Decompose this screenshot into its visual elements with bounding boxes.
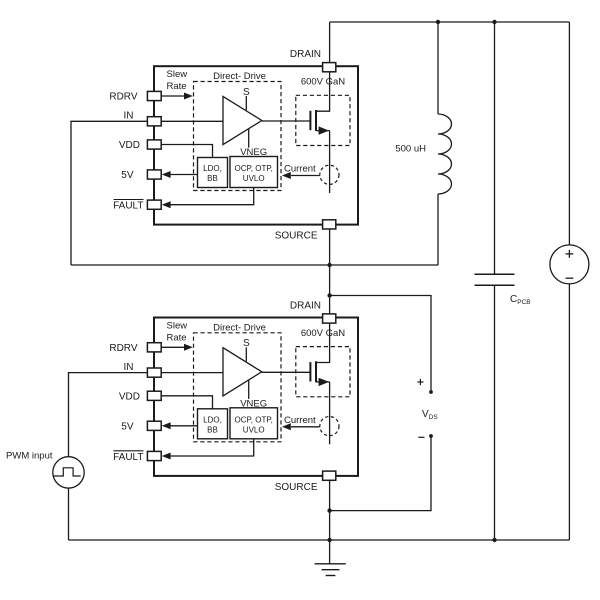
svg-text:OCP, OTP,: OCP, OTP, (235, 164, 273, 173)
node junction switch node (327, 263, 331, 267)
svg-text:BB: BB (207, 425, 218, 434)
wire PWM to U2 IN pin (69, 373, 148, 457)
transistor Q2 gate bar (309, 362, 311, 381)
wire top rail (330, 21, 570, 23)
V_DS minus sign (418, 436, 424, 438)
op-amp driver IC U1 outer box (154, 66, 358, 224)
svg-text:VDD: VDD (119, 140, 140, 151)
transistor Q1 drain lead (316, 72, 330, 111)
block LDO, BB (U2) (198, 409, 228, 439)
wire U2 SOURCE pin down to ground (329, 480, 331, 540)
wire triangle output to gate (U2) (262, 371, 311, 373)
wire OCP to FAULT pin with arrow (U2) (170, 439, 254, 456)
node VNEG stub and label (U1) (248, 129, 250, 148)
wire LDO to 5V pin with arrow (U1) (170, 174, 198, 176)
pin FAULT (U1) (147, 200, 161, 209)
block OCP, OTP, UVLO (U1) (230, 157, 278, 188)
transistor Q2 source lead with arrow (316, 381, 330, 383)
wire PWM bottom to ground rail (68, 488, 70, 540)
transistor Q2 channel bar (315, 361, 317, 382)
pin RDRV (U1) (147, 91, 161, 100)
transistor Q1 channel bar (315, 110, 317, 131)
wire LDO to 5V pin with arrow (U2) (170, 425, 198, 427)
ground (329, 540, 331, 564)
transistor Q1 gate bar (309, 111, 311, 130)
svg-text:500 uH: 500 uH (395, 144, 426, 155)
wire IN pin to triangle (U1) (161, 120, 223, 122)
RDRV arrow into Direct-Drive (U2) (161, 346, 184, 348)
inductor L1 500 uH (437, 22, 439, 114)
op-amp driver IC U2 outer box (154, 318, 358, 476)
transistor Q1 source lead with arrow (316, 130, 330, 132)
capacitor C_PCB plates (475, 273, 515, 275)
capacitor C_PCB bottom lead (494, 285, 496, 540)
Direct-Drive dashed block (U1) (194, 82, 282, 191)
node junction ground rail / source (327, 538, 331, 542)
pin VDD (U2) (147, 391, 161, 400)
pin SOURCE (U1) (323, 220, 336, 229)
svg-text:UVLO: UVLO (243, 174, 265, 183)
wire bottom ground rail (69, 539, 570, 541)
wire IN pin to triangle (U2) (161, 372, 223, 374)
wire U1 IN tie to source node: left drop (71, 121, 147, 265)
pin FAULT (U2) (147, 451, 161, 460)
node V_DS plus terminal dot (429, 390, 433, 394)
wire OCP to FAULT pin with arrow (U1) (170, 188, 254, 205)
svg-text:5V: 5V (121, 170, 134, 181)
svg-text:IN: IN (124, 111, 134, 122)
wire triangle output to gate (U1) (262, 120, 311, 122)
svg-text:Direct- Drive: Direct- Drive (213, 323, 266, 334)
pin DRAIN (U1) (323, 63, 336, 72)
svg-text:VDD: VDD (119, 392, 140, 403)
pin 5V (U2) (147, 421, 161, 430)
node V_DS minus terminal dot (429, 434, 433, 438)
svg-text:Rate: Rate (167, 81, 187, 92)
svg-text:600V GaN: 600V GaN (301, 328, 345, 339)
driver amplifier triangle (U2) (223, 348, 262, 396)
GaN FET dashed box Q2 (296, 347, 350, 397)
wire V_DS tap to measurement drop (330, 296, 431, 393)
node VNEG stub and label (U2) (248, 380, 250, 399)
svg-text:UVLO: UVLO (243, 425, 265, 434)
svg-text:SOURCE: SOURCE (275, 482, 318, 493)
pin 5V (U1) (147, 170, 161, 179)
node junction top rail / inductor (436, 20, 440, 24)
pin IN (U1) (147, 117, 161, 126)
node junction source / V_DS minus (327, 508, 331, 512)
svg-text:OCP, OTP,: OCP, OTP, (235, 415, 273, 424)
svg-text:SOURCE: SOURCE (275, 231, 318, 242)
transistor Q2 drain lead (316, 323, 330, 362)
V_DS plus sign (417, 381, 423, 383)
svg-text:PWM input: PWM input (6, 450, 53, 461)
GaN FET dashed box Q1 (296, 95, 350, 145)
pin DRAIN (U2) (323, 314, 336, 323)
svg-text:FAULT: FAULT (113, 452, 143, 463)
svg-text:IN: IN (124, 362, 134, 373)
pin IN (U2) (147, 368, 161, 377)
wire VDD pin to LDO (U1) (161, 145, 212, 158)
wire VDD pin to LDO (U2) (161, 396, 212, 409)
capacitor C_PCB top lead (494, 22, 496, 274)
svg-text:Rate: Rate (167, 333, 187, 344)
current-limit source (dashed circle) (U1) (320, 165, 339, 184)
svg-text:LDO,: LDO, (203, 164, 222, 173)
wire U1 SOURCE pin down through switch node (329, 229, 331, 314)
svg-text:DRAIN: DRAIN (290, 49, 321, 60)
svg-text:DRAIN: DRAIN (290, 301, 321, 312)
PWM pulse source symbol (53, 457, 84, 488)
wire U1 DRAIN pin up to top rail (329, 22, 331, 63)
svg-text:RDRV: RDRV (109, 343, 137, 354)
wire V_DS minus back to source (330, 436, 431, 511)
svg-text:Slew: Slew (167, 69, 188, 80)
node junction V_DS tap (327, 293, 331, 297)
wire switch node horizontal (IN tie / inductor bottom) (71, 264, 438, 266)
pin RDRV (U2) (147, 343, 161, 352)
Direct-Drive dashed block (U2) (194, 333, 282, 442)
svg-text:RDRV: RDRV (109, 92, 137, 103)
block OCP, OTP, UVLO (U2) (230, 408, 278, 439)
svg-text:Direct- Drive: Direct- Drive (213, 71, 266, 82)
svg-text:LDO,: LDO, (203, 415, 222, 424)
block LDO, BB (U1) (198, 158, 228, 188)
svg-text:FAULT: FAULT (113, 201, 143, 212)
pin VDD (U1) (147, 140, 161, 149)
voltage source V1 top lead (568, 22, 570, 245)
svg-text:Slew: Slew (167, 321, 188, 332)
voltage source V1 bottom lead (568, 284, 570, 540)
RDRV arrow into Direct-Drive (U1) (161, 95, 184, 97)
node junction ground rail / C_PCB (492, 538, 496, 542)
node junction top rail / C_PCB (492, 20, 496, 24)
current-limit source (dashed circle) (U2) (320, 417, 339, 436)
pin SOURCE (U2) (323, 471, 336, 480)
svg-text:5V: 5V (121, 422, 134, 433)
voltage source V1 (550, 245, 589, 284)
svg-text:600V GaN: 600V GaN (301, 77, 345, 88)
svg-text:BB: BB (207, 174, 218, 183)
driver amplifier triangle (U1) (223, 96, 262, 144)
